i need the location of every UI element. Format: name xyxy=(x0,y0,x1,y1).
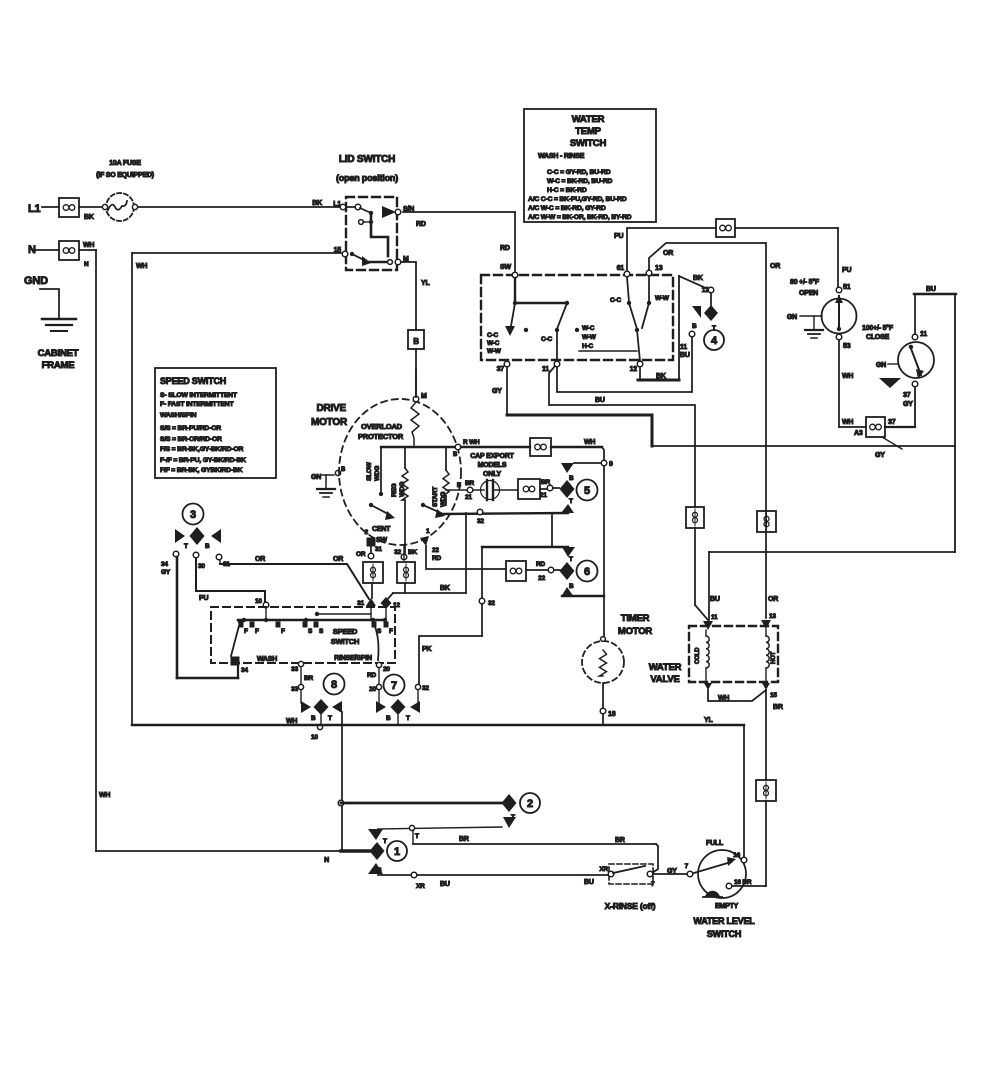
svg-text:BR: BR xyxy=(304,675,313,682)
svg-text:33: 33 xyxy=(291,666,298,673)
svg-text:MODELS: MODELS xyxy=(478,462,507,469)
svg-text:HOT: HOT xyxy=(771,651,777,664)
svg-text:BK: BK xyxy=(84,214,94,221)
svg-text:R WH: R WH xyxy=(463,439,480,446)
svg-text:BR: BR xyxy=(465,480,474,487)
svg-text:A/C W-W = BK-OR, BK-RD, BY-RD: A/C W-W = BK-OR, BK-RD, BY-RD xyxy=(528,214,632,221)
svg-text:3: 3 xyxy=(190,509,196,521)
svg-text:T: T xyxy=(328,715,332,722)
svg-text:BR: BR xyxy=(773,704,783,711)
svg-text:12: 12 xyxy=(702,287,710,294)
svg-text:RINSE/SPIN: RINSE/SPIN xyxy=(334,655,372,662)
svg-text:BK: BK xyxy=(440,585,450,592)
svg-text:C-C = GY-RD, BU-RD: C-C = GY-RD, BU-RD xyxy=(547,169,611,176)
svg-text:WH: WH xyxy=(136,263,147,270)
svg-text:SWITCH: SWITCH xyxy=(707,929,741,939)
svg-text:61: 61 xyxy=(617,265,625,272)
svg-text:REG: REG xyxy=(391,483,398,497)
svg-text:C-C: C-C xyxy=(610,297,621,304)
svg-text:WATER LEVEL: WATER LEVEL xyxy=(693,916,755,926)
svg-text:WASH: WASH xyxy=(257,656,277,663)
svg-text:B: B xyxy=(386,715,391,722)
svg-text:XR: XR xyxy=(599,866,608,873)
svg-text:SW: SW xyxy=(376,537,387,544)
svg-text:20: 20 xyxy=(369,686,376,693)
svg-text:SLOW: SLOW xyxy=(366,461,373,481)
svg-text:MOTOR: MOTOR xyxy=(618,626,653,637)
svg-text:37: 37 xyxy=(497,366,505,373)
svg-text:F: F xyxy=(255,628,259,635)
svg-text:10A FUSE: 10A FUSE xyxy=(109,160,141,167)
svg-text:21: 21 xyxy=(465,494,472,501)
svg-text:N: N xyxy=(84,261,89,268)
svg-text:37: 37 xyxy=(888,419,896,426)
svg-text:WASH/SPIN: WASH/SPIN xyxy=(160,412,197,419)
svg-text:21: 21 xyxy=(540,492,547,499)
svg-text:T: T xyxy=(383,838,387,845)
svg-text:SWITCH: SWITCH xyxy=(331,637,359,646)
svg-text:XR: XR xyxy=(416,883,425,890)
svg-text:7: 7 xyxy=(651,881,655,888)
svg-text:N: N xyxy=(28,244,36,256)
svg-text:C-C: C-C xyxy=(487,332,498,339)
svg-text:34: 34 xyxy=(241,667,248,674)
svg-text:B: B xyxy=(569,583,574,590)
svg-text:ONLY: ONLY xyxy=(483,471,502,478)
svg-text:GN: GN xyxy=(787,314,797,321)
svg-text:PROTECTOR: PROTECTOR xyxy=(358,432,404,441)
svg-text:OR: OR xyxy=(333,556,343,563)
svg-text:13: 13 xyxy=(769,613,776,620)
svg-text:PU: PU xyxy=(614,233,623,240)
svg-text:20: 20 xyxy=(383,666,390,673)
svg-text:F/F = BR-BK, GYBK/RD-BK: F/F = BR-BK, GYBK/RD-BK xyxy=(160,467,243,474)
svg-text:W-C: W-C xyxy=(487,340,500,347)
svg-text:F: F xyxy=(244,628,248,635)
svg-text:2: 2 xyxy=(365,529,369,536)
svg-text:S- SLOW INTERMITTENT: S- SLOW INTERMITTENT xyxy=(160,392,238,399)
svg-text:F: F xyxy=(281,628,285,635)
svg-text:A/C C-C = BK-PU,GY-RD, BU-RD: A/C C-C = BK-PU,GY-RD, BU-RD xyxy=(528,196,627,203)
svg-text:7: 7 xyxy=(685,863,689,870)
svg-text:OR: OR xyxy=(255,556,265,563)
svg-text:RD: RD xyxy=(416,221,426,228)
svg-text:TEMP: TEMP xyxy=(575,126,601,137)
svg-text:22: 22 xyxy=(432,547,439,554)
svg-text:WH: WH xyxy=(842,373,853,380)
svg-text:OR: OR xyxy=(770,263,780,270)
svg-text:CENT: CENT xyxy=(372,526,391,533)
svg-text:(open position): (open position) xyxy=(336,173,398,183)
svg-text:H-C = BK-RD: H-C = BK-RD xyxy=(547,187,587,194)
svg-text:DRIVE: DRIVE xyxy=(316,403,346,414)
svg-text:12: 12 xyxy=(393,602,400,609)
svg-text:5: 5 xyxy=(584,485,590,497)
svg-text:32: 32 xyxy=(488,600,495,607)
svg-text:B: B xyxy=(311,715,316,722)
svg-text:BU: BU xyxy=(584,879,594,886)
svg-text:GN: GN xyxy=(876,362,886,369)
svg-text:7: 7 xyxy=(391,680,397,692)
svg-text:GY: GY xyxy=(875,452,885,459)
svg-text:WATER: WATER xyxy=(649,662,682,673)
svg-text:S/S = BR-PU/RD-OR: S/S = BR-PU/RD-OR xyxy=(160,425,221,432)
svg-text:32: 32 xyxy=(394,549,401,556)
svg-text:BK: BK xyxy=(656,373,666,380)
svg-text:WASH - RINSE: WASH - RINSE xyxy=(538,153,585,160)
svg-text:100+/- 5°F: 100+/- 5°F xyxy=(862,324,894,332)
svg-text:H-C: H-C xyxy=(582,343,593,350)
svg-text:M: M xyxy=(421,393,427,400)
svg-text:PU: PU xyxy=(199,595,208,602)
svg-text:BU: BU xyxy=(595,397,605,404)
svg-text:16: 16 xyxy=(733,852,740,859)
svg-text:F-/F = BR-PU, GY-BK/RD-BK: F-/F = BR-PU, GY-BK/RD-BK xyxy=(160,457,246,464)
svg-text:CLOSE: CLOSE xyxy=(866,334,890,341)
svg-text:BK: BK xyxy=(693,275,703,282)
svg-text:2: 2 xyxy=(527,798,533,810)
svg-text:32: 32 xyxy=(477,518,484,525)
svg-text:W-W: W-W xyxy=(655,295,670,302)
svg-text:CAP EXPORT: CAP EXPORT xyxy=(470,453,514,460)
svg-text:OR: OR xyxy=(768,596,778,603)
svg-text:GY: GY xyxy=(492,388,502,395)
svg-text:8: 8 xyxy=(331,679,337,691)
svg-text:GY: GY xyxy=(161,569,171,576)
svg-text:GN: GN xyxy=(311,474,321,481)
svg-text:PU: PU xyxy=(842,267,851,274)
svg-text:1: 1 xyxy=(394,846,400,858)
svg-text:BU: BU xyxy=(680,352,690,359)
svg-text:B: B xyxy=(413,337,419,346)
svg-text:33: 33 xyxy=(291,686,298,693)
svg-text:RD: RD xyxy=(367,672,376,679)
svg-text:OPEN: OPEN xyxy=(799,290,818,297)
svg-text:BU: BU xyxy=(710,596,720,603)
svg-text:F- FAST INTERMITTENT: F- FAST INTERMITTENT xyxy=(160,401,234,408)
svg-text:GY: GY xyxy=(903,401,913,408)
svg-text:11: 11 xyxy=(711,614,718,621)
svg-text:W-C = BK-RD, BU-RD: W-C = BK-RD, BU-RD xyxy=(547,178,612,185)
svg-text:START: START xyxy=(432,487,439,507)
svg-text:15: 15 xyxy=(770,692,777,699)
svg-text:1: 1 xyxy=(426,528,430,535)
svg-text:6: 6 xyxy=(584,566,590,578)
svg-text:L1: L1 xyxy=(28,203,41,215)
svg-text:WDG: WDG xyxy=(399,482,406,497)
svg-text:B: B xyxy=(205,543,210,550)
svg-text:SW: SW xyxy=(500,264,511,271)
svg-text:X-RINSE (off): X-RINSE (off) xyxy=(605,901,656,911)
svg-text:13: 13 xyxy=(655,265,663,272)
svg-text:BR: BR xyxy=(541,479,550,486)
svg-text:WH: WH xyxy=(99,792,110,799)
svg-text:C-C: C-C xyxy=(541,336,552,343)
svg-text:BK: BK xyxy=(408,549,417,556)
svg-text:B: B xyxy=(692,323,697,330)
svg-text:OR: OR xyxy=(356,551,366,558)
svg-text:MOTOR: MOTOR xyxy=(311,417,348,428)
svg-text:GND: GND xyxy=(24,275,48,287)
svg-text:FRAME: FRAME xyxy=(42,360,75,371)
svg-text:WH: WH xyxy=(842,419,853,426)
svg-text:16 BR: 16 BR xyxy=(734,879,752,886)
svg-text:COLD: COLD xyxy=(695,647,701,664)
svg-text:BR: BR xyxy=(615,837,625,844)
svg-text:WH: WH xyxy=(718,695,729,702)
svg-text:WH: WH xyxy=(83,242,94,249)
svg-text:30: 30 xyxy=(198,563,205,570)
svg-text:VALVE: VALVE xyxy=(650,674,679,685)
svg-text:F/S = BR-BK,GY-BK/RD-OR: F/S = BR-BK,GY-BK/RD-OR xyxy=(160,446,243,453)
svg-text:B: B xyxy=(569,475,574,482)
svg-text:RD: RD xyxy=(432,555,441,562)
svg-text:(IF SO EQUIPPED): (IF SO EQUIPPED) xyxy=(96,172,154,179)
svg-text:A/C W-C = BK-RD, GY-RD: A/C W-C = BK-RD, GY-RD xyxy=(528,205,606,212)
svg-text:OVERLOAD: OVERLOAD xyxy=(361,422,403,431)
svg-text:CABINET: CABINET xyxy=(38,348,79,359)
svg-text:T: T xyxy=(569,498,573,505)
svg-text:SWITCH: SWITCH xyxy=(570,138,607,149)
svg-text:FULL: FULL xyxy=(706,840,724,847)
svg-text:RD: RD xyxy=(536,561,545,568)
svg-text:51: 51 xyxy=(843,284,851,291)
svg-text:W-W: W-W xyxy=(487,348,502,355)
svg-text:F: F xyxy=(389,628,393,635)
svg-text:TIMER: TIMER xyxy=(621,613,650,624)
svg-text:PK: PK xyxy=(422,646,431,653)
svg-text:31: 31 xyxy=(357,600,364,607)
svg-text:37: 37 xyxy=(903,392,911,399)
svg-text:S/S = BR-OR/RD-OR: S/S = BR-OR/RD-OR xyxy=(160,436,222,443)
svg-text:53: 53 xyxy=(843,343,851,350)
svg-text:BU: BU xyxy=(440,881,450,888)
svg-text:SPEED SWITCH: SPEED SWITCH xyxy=(160,376,226,386)
svg-text:N: N xyxy=(324,857,329,864)
svg-text:W-W: W-W xyxy=(582,334,597,341)
svg-text:T: T xyxy=(184,543,188,550)
svg-text:32: 32 xyxy=(422,685,429,692)
svg-text:A3: A3 xyxy=(854,430,863,437)
svg-text:SPEED: SPEED xyxy=(333,627,358,636)
svg-text:BU: BU xyxy=(926,286,936,293)
svg-text:9: 9 xyxy=(609,461,613,468)
svg-text:11: 11 xyxy=(920,331,927,338)
svg-text:80 +/- 5°F: 80 +/- 5°F xyxy=(790,278,820,286)
svg-text:31: 31 xyxy=(375,546,382,553)
svg-text:W-C: W-C xyxy=(582,325,595,332)
svg-text:WDG: WDG xyxy=(374,466,381,481)
svg-text:LID SWITCH: LID SWITCH xyxy=(339,154,395,165)
svg-text:34: 34 xyxy=(161,561,168,568)
svg-text:18: 18 xyxy=(608,711,616,718)
svg-text:22: 22 xyxy=(538,575,545,582)
svg-text:T: T xyxy=(415,833,419,840)
svg-text:WH: WH xyxy=(584,439,595,446)
svg-text:11: 11 xyxy=(542,366,549,373)
svg-text:OR: OR xyxy=(663,250,673,257)
svg-text:B: B xyxy=(377,867,382,874)
svg-text:T: T xyxy=(406,715,410,722)
svg-text:10: 10 xyxy=(255,598,262,605)
svg-text:T: T xyxy=(569,556,573,563)
svg-text:12: 12 xyxy=(630,366,638,373)
svg-text:BK: BK xyxy=(312,200,322,207)
svg-text:WATER: WATER xyxy=(572,114,605,125)
svg-text:BR: BR xyxy=(459,836,469,843)
svg-text:10: 10 xyxy=(311,734,318,741)
svg-text:YL: YL xyxy=(704,717,713,724)
svg-text:YL: YL xyxy=(421,280,430,287)
svg-text:11: 11 xyxy=(680,344,687,351)
svg-text:EMPTY: EMPTY xyxy=(715,903,739,910)
svg-text:RD: RD xyxy=(500,245,510,252)
